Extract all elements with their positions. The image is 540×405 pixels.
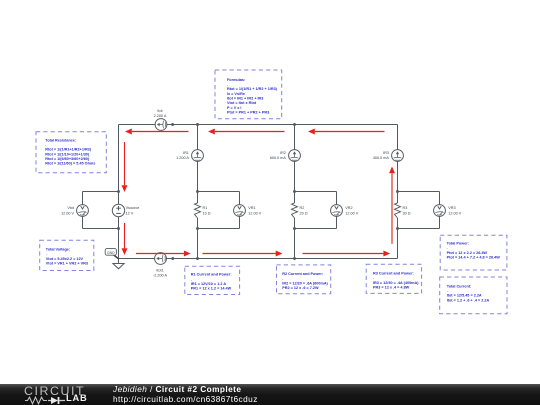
svg-text:Itot: Itot [157,109,163,113]
svg-text:400.0 mA: 400.0 mA [373,156,390,160]
svg-text:R1 Current and Power:: R1 Current and Power: [191,273,232,277]
VR1 label [248,206,261,215]
svg-text:Rtot = 1/(1/R1+1/R2+1/R3): Rtot = 1/(1/R1+1/R2+1/R3) [45,148,91,152]
GND net flag [105,249,118,259]
wire VR3 loop bottom [398,228,440,230]
ground symbol [113,264,124,269]
wire Vtot loop top [83,191,119,193]
svg-text:IR3: IR3 [383,151,389,155]
ammeter IR1 [192,150,204,162]
svg-text:Itot = IR1 + IR2 + IR3: Itot = IR1 + IR2 + IR3 [227,97,263,101]
svg-text:R3: R3 [403,206,408,210]
main loop bottom wire [119,258,398,260]
R3 label [403,206,411,215]
wire R3 branch lower [397,218,399,259]
note: Total Voltage [40,240,94,270]
svg-text:R2 Current and Power:: R2 Current and Power: [282,272,323,276]
svg-text:Total Power:: Total Power: [447,242,469,246]
svg-text:Rtot = 1/(1/R1 + 1/R2 + 1/R3): Rtot = 1/(1/R1 + 1/R2 + 1/R3) [227,87,278,91]
current arrow bottom-left (points right) [136,251,191,257]
svg-text:Ptot = PR1 + PR2 + PR3: Ptot = PR1 + PR2 + PR3 [227,111,269,115]
current arrow left-rail upper (points down) [122,142,128,192]
wire R3 branch upper [397,125,399,150]
IR2 label [270,151,287,160]
svg-text:Itot1: Itot1 [156,268,163,272]
svg-text:P = V x I: P = V x I [227,106,241,110]
left rail wire (upper) [118,125,120,205]
svg-text:.: . [46,252,47,256]
IR1 label [176,151,189,160]
note: R2 Current and Power [277,265,331,294]
R2 label [300,206,308,215]
svg-text:600.0 mA: 600.0 mA [270,156,287,160]
svg-text:IR1 = 12V/10 = 1.2 A: IR1 = 12V/10 = 1.2 A [191,282,227,286]
current arrow top-mid (points left) [208,129,285,135]
junction left rail / Vtot bottom [117,227,120,230]
svg-text:-2.200 A: -2.200 A [153,274,167,278]
voltage source Vsource [112,204,124,216]
wire R2 branch upper [294,125,296,150]
svg-text:Ix = Vs/Rx: Ix = Vs/Rx [227,92,246,96]
svg-text:R3 Current and Power:: R3 Current and Power: [373,272,414,276]
svg-text:12.00 V: 12.00 V [61,211,74,215]
Vtot label [61,206,75,215]
svg-text:12.00 V: 12.00 V [448,211,461,215]
voltmeter Vtot [77,205,89,217]
svg-text:.: . [373,276,374,280]
wire R3 branch middle [397,161,399,203]
wire Vtot upper lead [82,192,84,205]
current arrow top-right (points left) [308,129,385,135]
svg-text:VR1: VR1 [248,206,255,210]
ammeter IR3 [392,150,404,162]
wire Vtot loop bottom [83,228,119,230]
svg-text:Formulas:: Formulas: [227,78,245,82]
voltmeter VR1 [234,205,246,217]
wire VR3 loop top [398,191,440,193]
ammeter Itot1 [155,253,167,265]
wire VR3 upper lead [439,192,441,205]
svg-text:Vtot: Vtot [67,206,75,210]
Itot1 label [153,268,167,277]
svg-text:2.200 A: 2.200 A [154,114,167,118]
junction bottom wire / R1 branch [196,257,199,260]
svg-text:Ptot = 12 x 2.2 = 26.4W: Ptot = 12 x 2.2 = 26.4W [447,251,488,255]
note: Total Current [440,277,507,314]
svg-text:12 V: 12 V [126,211,134,215]
footer title text [113,385,258,404]
junction bottom wire / R2 branch [293,257,296,260]
logo resistor zigzag [25,397,47,404]
note: R1 Current and Power [185,266,240,294]
junction R2 branch / VR2 bottom [293,227,296,230]
wire R1 branch middle [197,161,199,203]
svg-text:Rtot = 1/(11/60) = 5.45 Ohms: Rtot = 1/(11/60) = 5.45 Ohms [45,162,95,166]
svg-text:Vtot = 5.45x2.2 = 12V: Vtot = 5.45x2.2 = 12V [46,257,84,261]
svg-text:Total Resistance:: Total Resistance: [45,138,76,142]
svg-text:Rtot = 1/(6/60+3/60+2/60): Rtot = 1/(6/60+3/60+2/60) [45,157,90,161]
svg-text:.: . [447,289,448,293]
svg-text:R2: R2 [300,206,305,210]
note: Formulas [215,70,282,119]
svg-text:Total Voltage:: Total Voltage: [46,247,70,251]
main loop top wire [119,124,398,126]
resistor R3 [395,203,401,218]
current arrow bottom-mid (points right) [203,251,283,257]
wire VR1 loop top [198,191,240,193]
current arrow top-left (points left) [125,129,189,135]
svg-text:Vtot = Itot x Rtot: Vtot = Itot x Rtot [227,101,257,105]
svg-text:10 Ω: 10 Ω [203,211,211,215]
IR3 label [373,151,390,160]
svg-text:20 Ω: 20 Ω [300,211,308,215]
wire VR1 lower lead [239,216,241,228]
svg-text:.: . [447,246,448,250]
svg-text:PR2 = 12 x .6 = 7.2W: PR2 = 12 x .6 = 7.2W [282,286,319,290]
resistor R1 [195,203,201,218]
svg-text:.: . [45,143,46,147]
wire VR1 upper lead [239,192,241,205]
R1 label [203,206,211,215]
junction R1 branch / VR1 top [196,190,199,193]
wire VR2 loop top [295,191,337,193]
ground stub wire [118,259,120,264]
svg-text:Vsource: Vsource [126,206,140,210]
current arrow bottom-right (points right) [303,251,391,257]
junction top wire / R2 branch [293,123,296,126]
svg-text:IR3 = 12/30 = .4A (400mA): IR3 = 12/30 = .4A (400mA) [373,281,419,285]
junction left rail / Vtot top [117,190,120,193]
current arrow left-rail lower (points down) [122,223,128,255]
note: Total Resistance [36,132,106,173]
junction R3 branch / VR3 bottom [396,227,399,230]
svg-text:30 Ω: 30 Ω [403,211,411,215]
logo diode [51,397,58,404]
current arrow right-rail (points up) [389,167,395,244]
svg-text:IR2: IR2 [280,151,286,155]
svg-text:1.200 A: 1.200 A [176,156,189,160]
wire VR1 loop bottom [198,228,240,230]
wire VR2 upper lead [336,192,338,205]
VR2 label [345,206,358,215]
Itot label [154,109,167,118]
wire VR2 lower lead [336,216,338,228]
svg-text:PR3 = 12 x .4 = 4.8W: PR3 = 12 x .4 = 4.8W [373,286,410,290]
svg-text:GND: GND [107,251,115,255]
svg-text:Itot = 12/5.45 = 2.2A: Itot = 12/5.45 = 2.2A [447,294,482,298]
voltmeter VR3 [434,205,446,217]
svg-text:.: . [191,277,192,281]
ammeter IR2 [289,150,301,162]
wire Vtot lower lead [82,216,84,228]
svg-text:.: . [282,277,283,281]
wire R2 branch lower [294,218,296,259]
wire R2 branch middle [294,161,296,203]
wire VR2 loop bottom [295,228,337,230]
svg-text:Itot = 1.2 + .6 + .4 = 2.2A: Itot = 1.2 + .6 + .4 = 2.2A [447,298,490,302]
svg-text:Total Current:: Total Current: [447,284,472,288]
voltmeter VR2 [331,205,343,217]
svg-text:IR2 = 12/20 = .6A (600mA): IR2 = 12/20 = .6A (600mA) [282,281,328,285]
svg-text:Vtot = VR1 + VR2 + VR3: Vtot = VR1 + VR2 + VR3 [46,261,88,265]
junction dot right of Itot1 [171,257,174,260]
svg-text:PR1 = 12 x 1.2 = 14.4W: PR1 = 12 x 1.2 = 14.4W [191,287,232,291]
note: R3 Current and Power [366,264,421,293]
CircuitLab logo [24,385,94,404]
svg-text:VR3: VR3 [448,206,455,210]
svg-text:Ptot = 14.4 + 7.2 + 4.8 = 26.4: Ptot = 14.4 + 7.2 + 4.8 = 26.4W [447,256,501,260]
ammeter Itot [155,119,167,131]
wire R1 branch lower [197,218,199,259]
resistor R2 [292,203,298,218]
left rail wire (lower) [118,217,120,259]
note: Total Power [440,235,507,270]
svg-text:12.00 V: 12.00 V [345,211,358,215]
VR3 label [448,206,461,215]
junction R2 branch / VR2 top [293,190,296,193]
junction top wire / R1 branch [196,123,199,126]
footer bar [0,384,540,405]
junction R3 branch / VR3 top [396,190,399,193]
svg-text:R1: R1 [203,206,208,210]
wire R1 branch upper [197,125,199,150]
junction R1 branch / VR1 bottom [196,227,199,230]
svg-text:Rtot = 1/(1/10+1/20+1/30): Rtot = 1/(1/10+1/20+1/30) [45,152,90,156]
svg-text:IR1: IR1 [183,151,189,155]
junction dot right of Itot [171,123,174,126]
svg-text:VR2: VR2 [345,206,352,210]
svg-text:12.00 V: 12.00 V [248,211,261,215]
svg-text:.: . [227,82,228,86]
Vsource label [126,206,140,215]
wire VR3 lower lead [439,216,441,228]
